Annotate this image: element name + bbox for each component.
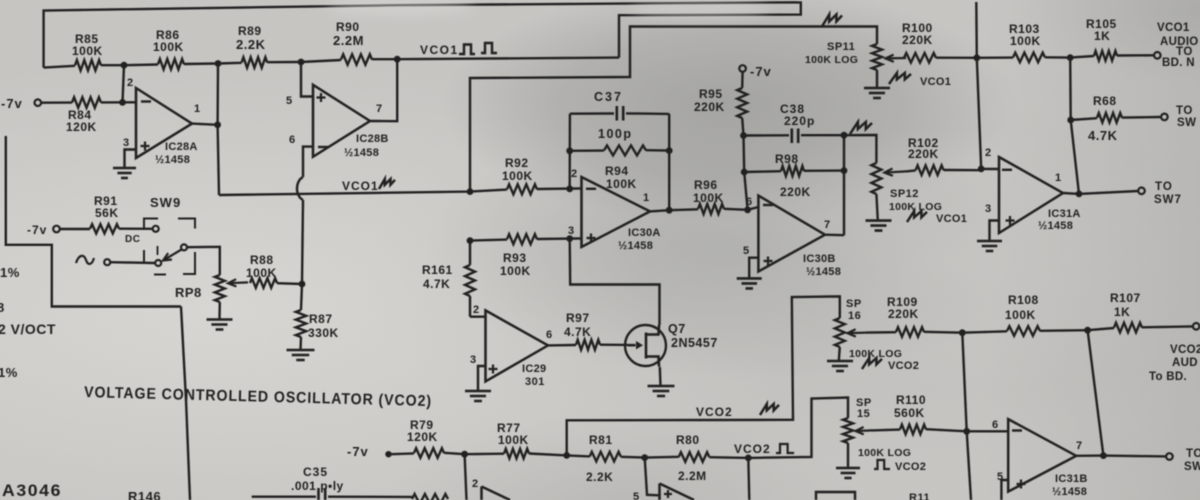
label M VCO1 under R100 bbox=[889, 73, 911, 84]
resistor R81 bbox=[590, 452, 621, 462]
resistor R109 bbox=[896, 327, 924, 337]
wire Q7 source to ground bbox=[659, 367, 662, 386]
potentiometer RP8 body bbox=[215, 275, 225, 302]
resistor R90 bbox=[341, 54, 372, 64]
resistor R103 bbox=[1013, 53, 1045, 63]
node R77-R81 junction bbox=[563, 452, 570, 459]
wire IC30B out node to SP12 bbox=[844, 135, 876, 163]
ground IC28A bbox=[113, 168, 136, 178]
wiper arrow SP16 bbox=[848, 329, 867, 336]
node R100-R103 junction bbox=[973, 54, 980, 61]
resistor R89 bbox=[242, 57, 268, 67]
resistor R86 bbox=[158, 59, 184, 69]
node IC31A pin2 junction bbox=[978, 166, 985, 173]
wire SP16 to ground bbox=[839, 347, 840, 361]
switch pole tick bbox=[157, 246, 159, 255]
contact circle SW9 right bbox=[181, 244, 187, 250]
wire IC29 pin3 to ground bbox=[478, 366, 486, 391]
wire IC29 output bbox=[548, 344, 576, 347]
plus sign bottom middle op-amp bbox=[664, 490, 672, 498]
wire IC31A output bbox=[1063, 192, 1079, 195]
ground SP11 bbox=[864, 88, 890, 98]
ground SP16 bbox=[827, 361, 853, 371]
wire IC31B output bbox=[1076, 454, 1103, 457]
label pulse VCO2 under SP15 bbox=[874, 460, 890, 469]
ground IC30B bbox=[737, 278, 762, 288]
node R109-R108 junction bbox=[959, 329, 966, 336]
resistor R105 bbox=[1094, 51, 1117, 61]
node R98 junction left bbox=[741, 169, 748, 176]
resistor R102 bbox=[916, 165, 944, 175]
symbol sawtooth VCO2 M bbox=[760, 404, 779, 415]
wire RP8 bottom to ground bbox=[218, 302, 221, 320]
node R79-R77 junction bbox=[461, 451, 468, 458]
node junction R85-R86 bbox=[121, 62, 128, 69]
wire switch to RP8 top bbox=[187, 247, 220, 275]
op-amp IC30B bbox=[758, 196, 825, 272]
symbol sine wave input bbox=[76, 256, 94, 264]
node IC28A output junction bbox=[214, 121, 221, 128]
wire VCO2 pulse bus bbox=[748, 398, 848, 458]
wire IC28B pin6 lead bbox=[303, 147, 313, 177]
wire junction down to op-amp pin2 bbox=[465, 454, 467, 500]
node C37 loop left junction bbox=[566, 185, 573, 192]
ground RP8 bbox=[207, 320, 233, 330]
wire R89-R90 node down to IC28B pin5 bbox=[301, 62, 313, 97]
wiper arrow RP8 bbox=[228, 279, 248, 286]
node IC31B pin6 junction bbox=[963, 428, 970, 435]
node R94 right junction bbox=[666, 147, 673, 154]
terminal -7v bottom bbox=[385, 451, 391, 457]
resistor R79 bbox=[414, 448, 444, 458]
resistor R84 bbox=[72, 97, 101, 107]
ground IC29 bbox=[465, 391, 491, 401]
node R88 junction bbox=[299, 281, 306, 288]
wire feedback right vertical C38/R98 bbox=[843, 135, 845, 235]
ground SP15 bbox=[836, 468, 860, 478]
potentiometer SP15 body bbox=[843, 418, 853, 443]
wire IC31B pin5 down bbox=[1001, 480, 1008, 500]
wire R95 chain down bbox=[742, 136, 745, 173]
wire IC30A output bbox=[650, 210, 669, 211]
node R96 / IC30B pin6 junction bbox=[744, 206, 751, 213]
wire long vertical R109 node to IC31B pin6 to bottom bbox=[962, 333, 971, 500]
resistor R96 bbox=[698, 204, 724, 214]
symbol sawtooth at VCO1 M bbox=[379, 179, 395, 189]
node IC30A output junction bbox=[666, 207, 673, 214]
wire IC31A pin3 to ground bbox=[990, 221, 1000, 242]
node R81-R80 junction bbox=[641, 454, 648, 461]
wire pin6 vertical down to R88 node bbox=[302, 200, 303, 284]
resistor R91 bbox=[90, 224, 119, 233]
terminal -7v center bbox=[739, 65, 746, 72]
op-amp IC29 bbox=[486, 310, 549, 381]
node R86-R89 junction bbox=[215, 60, 222, 67]
resistor R93 bbox=[507, 234, 537, 244]
wire SP11 to ground bbox=[876, 70, 878, 88]
wire R107 node down to IC31B output bbox=[1088, 330, 1104, 455]
op-amp partial bottom middle bbox=[660, 484, 695, 500]
wire vertical from R86-R89 node through output down to VCO1-M wire bbox=[218, 64, 219, 196]
node VCO1-M junction bbox=[467, 188, 474, 195]
plus sign IC31B bbox=[1017, 480, 1026, 489]
symbol pulse VCO2 wire bbox=[776, 444, 794, 453]
symbol sawtooth above SP11 feed bbox=[822, 15, 842, 27]
ground Q7 bbox=[648, 386, 675, 396]
contact circle SW9 pole bbox=[155, 260, 161, 266]
wire IC30B output to feedback vertical bbox=[825, 233, 844, 236]
op-amp IC28B bbox=[313, 85, 370, 157]
node R103-R105 junction bbox=[1067, 54, 1074, 61]
wire IC30B pin6 bbox=[748, 207, 759, 210]
switch arm with arrow bbox=[163, 250, 182, 261]
resistor R97 bbox=[576, 340, 600, 350]
resistor R100 bbox=[904, 53, 936, 63]
resistor R107 bbox=[1114, 323, 1142, 333]
resistor R92 bbox=[507, 184, 537, 194]
wire hop over VCO1-M wire bbox=[297, 177, 303, 200]
capacitor C38 bbox=[744, 134, 790, 137]
wire IC28A output bbox=[192, 124, 218, 125]
node R94 left junction bbox=[566, 147, 573, 154]
plus sign IC31A bbox=[1006, 216, 1015, 225]
resistor R87 bbox=[296, 310, 306, 337]
wiper arrow SP11 bbox=[886, 55, 907, 62]
plus sign IC28A bbox=[141, 142, 150, 151]
node IC31B output junction bbox=[1100, 452, 1107, 459]
op-amp IC31A bbox=[999, 157, 1063, 233]
wire R68 node down to IC31A output bbox=[1071, 120, 1079, 194]
wire feedback loop over top from VCO1 pulse output back to R85 input bbox=[44, 2, 801, 67]
op-amp IC30A bbox=[582, 177, 651, 247]
resistor R94 bbox=[604, 145, 646, 155]
minus sign IC30A bbox=[586, 188, 596, 190]
node R93 Q7 branch junction bbox=[566, 235, 573, 242]
node R98 right junction bbox=[841, 167, 848, 174]
resistor R77 bbox=[504, 449, 529, 459]
symbol pulse waveform at VCO1 bbox=[459, 43, 497, 54]
label M VCO1 under SP12 bbox=[907, 211, 927, 222]
label M VCO2 under SP16 bbox=[862, 358, 882, 369]
minus sign IC31A bbox=[1002, 169, 1012, 171]
resistor R110 bbox=[900, 425, 926, 435]
ground IC31A bbox=[977, 241, 1002, 251]
symbol sawtooth above SP12 feed bbox=[850, 122, 872, 134]
node R68 junction bbox=[1067, 117, 1074, 124]
node R90 output junction bbox=[394, 56, 401, 63]
terminal VCO1 audio out bbox=[1154, 52, 1161, 59]
terminal TO SW7 bbox=[1138, 188, 1145, 195]
wire IC28A pin3 to ground bbox=[125, 150, 137, 169]
minus sign IC28B bbox=[318, 146, 328, 148]
node R80 output junction bbox=[745, 455, 752, 462]
op-amp IC31B bbox=[1008, 419, 1076, 492]
wire IC28B output up to R90 junction bbox=[370, 59, 397, 121]
potentiometer SP16 body bbox=[835, 318, 845, 347]
node R108-R107 junction bbox=[1084, 327, 1091, 334]
wiper arrow SP15 bbox=[856, 427, 873, 434]
wire IC31B pin6 bbox=[967, 430, 1009, 432]
wire VCO1 M (sawtooth) bus bbox=[219, 190, 507, 195]
resistor R68 bbox=[1097, 113, 1122, 123]
ground SP12 bbox=[866, 221, 892, 231]
plus sign IC29 bbox=[489, 365, 498, 374]
box component outline bottom right bbox=[816, 492, 855, 500]
switch SW9 dashed box bbox=[144, 219, 195, 275]
terminal -7v SW9 bbox=[53, 226, 60, 233]
wire SP12 to ground bbox=[876, 194, 877, 221]
node C38 junction left bbox=[740, 132, 747, 139]
minus sign IC28A bbox=[141, 100, 151, 102]
wire left border staircase bbox=[6, 136, 181, 307]
wire junction down to op-amp pin5 bbox=[645, 458, 659, 496]
node R93 left junction bbox=[467, 237, 474, 244]
wire C37 loop right vertical bbox=[668, 114, 670, 210]
terminal TO SW bbox=[1161, 114, 1168, 121]
resistor R95 bbox=[737, 88, 747, 118]
terminal IC31B out bbox=[1166, 453, 1173, 460]
wire long vertical R100 node to IC31A input bbox=[977, 58, 981, 169]
wire R80 node down bbox=[748, 458, 749, 500]
wire C37 loop left vertical bbox=[569, 114, 572, 189]
resistor R85 bbox=[75, 60, 101, 70]
wire IC31A pin2 bbox=[981, 168, 999, 171]
wire sine input to switch pole bbox=[110, 261, 155, 264]
wire VCO1 pulse output run bbox=[397, 58, 619, 60]
terminal -7v input left bbox=[35, 99, 42, 106]
transistor Q7 2N5457 bbox=[625, 325, 666, 366]
node junction R84 / R85-R86 bbox=[119, 99, 126, 106]
capacitor C37 bbox=[570, 112, 614, 115]
minus sign IC30B bbox=[763, 204, 773, 206]
wire SP15 to ground bbox=[847, 443, 849, 468]
wire IC30B pin5 to ground bbox=[749, 258, 758, 279]
potentiometer SP12 body bbox=[871, 163, 881, 194]
terminal VCO2 audio out bbox=[1193, 323, 1200, 330]
resistor R98 bbox=[781, 166, 804, 176]
resistor R88 bbox=[250, 278, 277, 288]
wire vertical top to R103 node bbox=[975, 2, 978, 58]
node R89-R90 junction bbox=[298, 59, 305, 66]
op-amp partial bottom left bbox=[482, 487, 511, 500]
wire IC29 pin2 bbox=[470, 316, 486, 318]
resistor partial bottom bbox=[412, 494, 448, 500]
minus sign IC31B bbox=[1012, 429, 1022, 431]
potentiometer SP11 body bbox=[872, 44, 882, 70]
resistor R161 bbox=[465, 265, 475, 296]
node IC31A output junction bbox=[1076, 191, 1083, 198]
wiper arrow SP12 bbox=[885, 169, 907, 176]
wire left border vertical to bottom bbox=[181, 307, 190, 500]
op-amp IC28A bbox=[136, 88, 192, 158]
contact circle SW9 upper bbox=[153, 226, 159, 232]
ground R87 bbox=[287, 350, 315, 360]
resistor R80 bbox=[679, 452, 710, 462]
wire VCO1-M node up and over to SP11 bbox=[470, 27, 877, 192]
wire Q7 drain branch from R93 node bbox=[570, 239, 660, 325]
plus sign IC30A bbox=[587, 234, 596, 243]
terminal sine input bbox=[104, 259, 110, 265]
plus sign IC28B bbox=[317, 93, 326, 102]
capacitor C35 bbox=[252, 496, 316, 498]
resistor R108 bbox=[1007, 326, 1040, 336]
plus sign IC30B bbox=[764, 257, 773, 266]
wire R103 node down to R68 node bbox=[1069, 58, 1072, 120]
wire VCO2 M bus bbox=[567, 296, 840, 455]
node C38 right junction bbox=[841, 132, 848, 139]
photo light streaks washing out top wires bbox=[325, 0, 475, 14]
